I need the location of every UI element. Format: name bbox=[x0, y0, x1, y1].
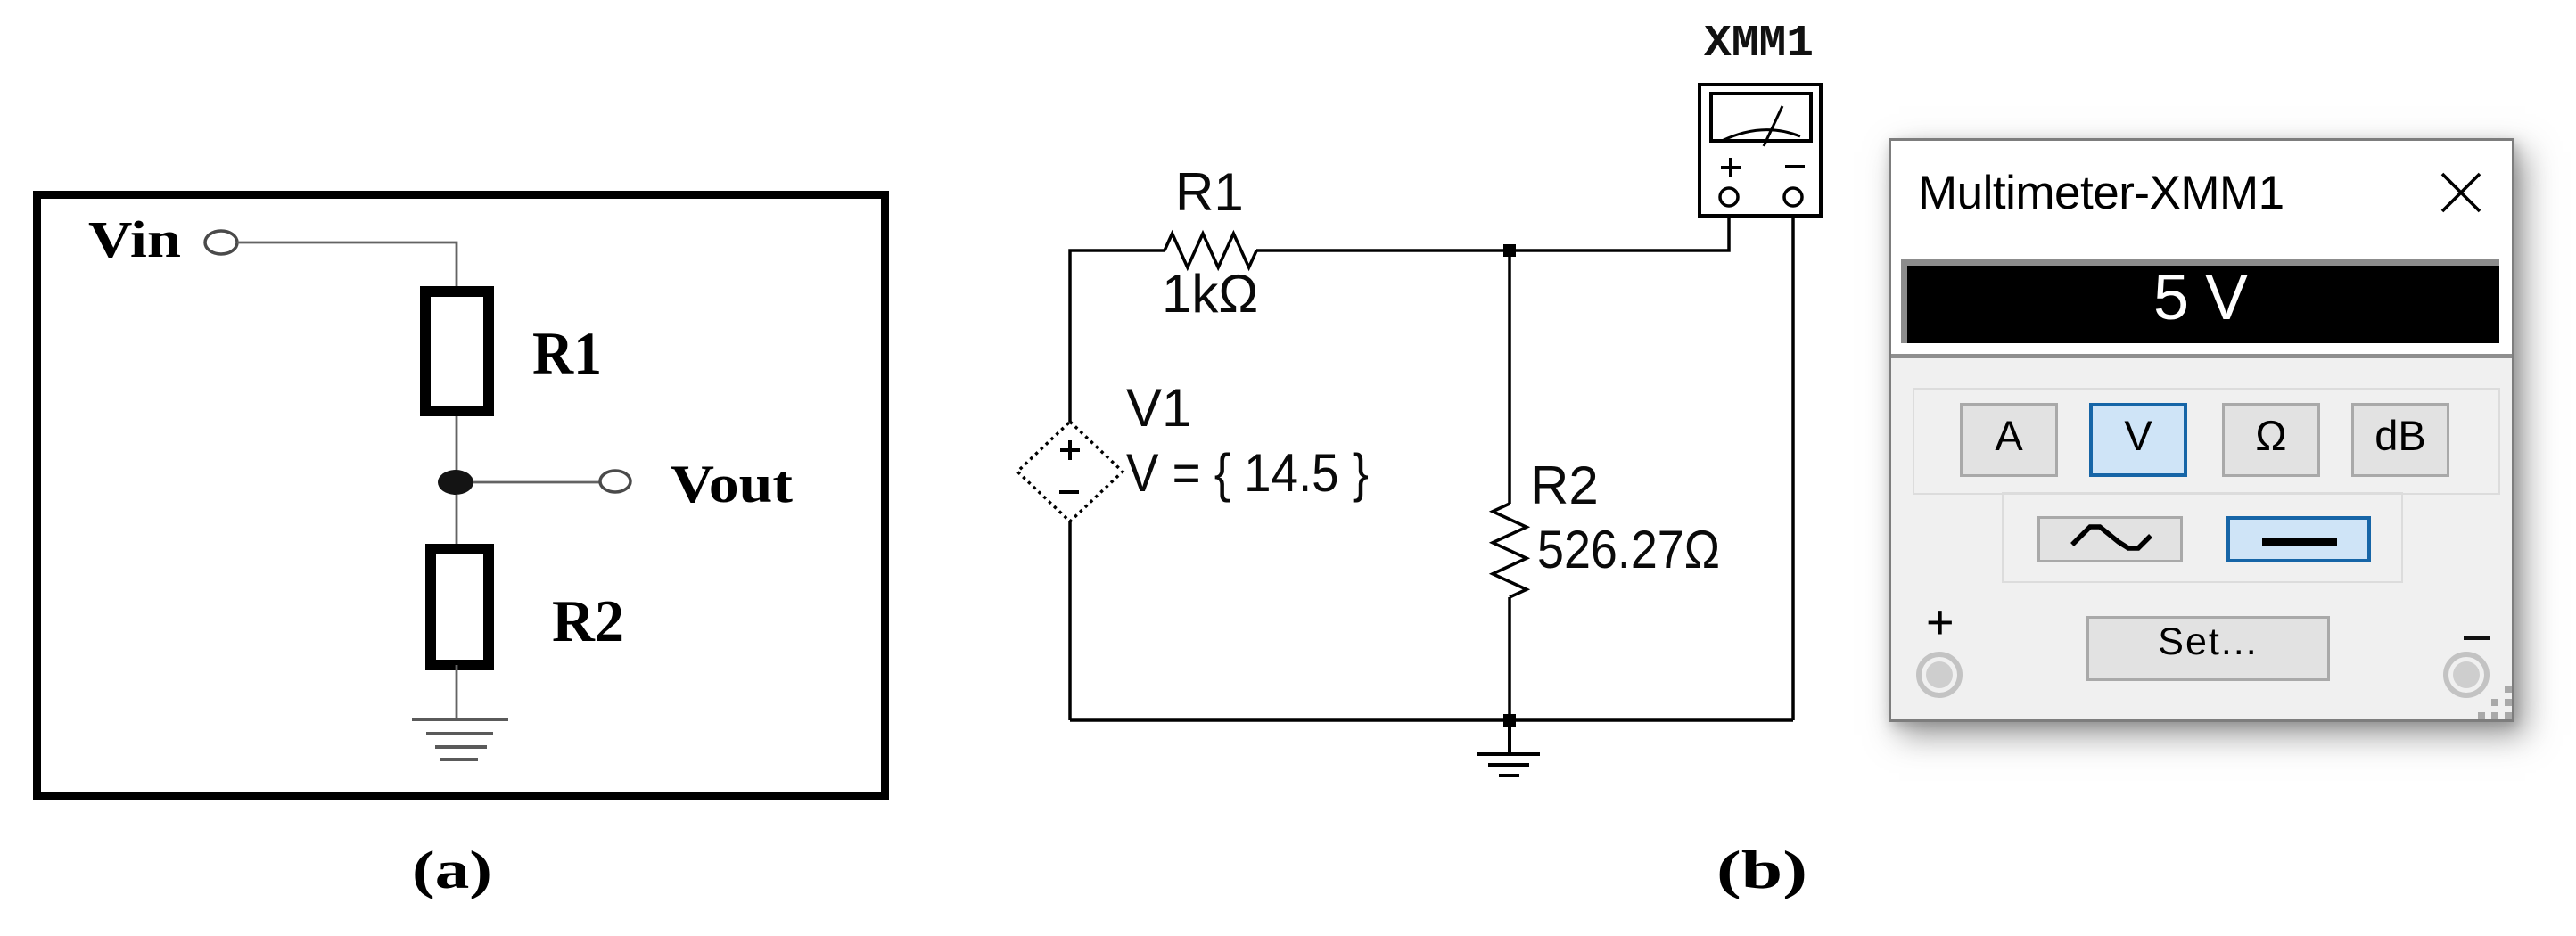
wire node to Vout bbox=[473, 481, 600, 484]
terminal Vout bbox=[600, 471, 630, 492]
svg-text:XMM1: XMM1 bbox=[1704, 19, 1814, 70]
svg-text:526.27Ω: 526.27Ω bbox=[1537, 520, 1720, 579]
svg-text:(a): (a) bbox=[412, 841, 492, 899]
svg-text:R2: R2 bbox=[1530, 456, 1599, 515]
junction node top bbox=[1503, 244, 1516, 257]
button A bbox=[1960, 403, 2058, 477]
XMM1 plus terminal bbox=[1720, 188, 1738, 206]
signal group box bbox=[2002, 492, 2403, 583]
XMM1 icon meter needle bbox=[1764, 106, 1782, 146]
button Set bbox=[2086, 616, 2330, 681]
wire R2 bottom to ground junction (b) bbox=[1508, 597, 1511, 720]
wire node to R2 top bbox=[456, 495, 458, 549]
svg-text:R2: R2 bbox=[552, 588, 624, 654]
V1 minus sign bbox=[1059, 490, 1079, 494]
bottom rail wire bbox=[1070, 718, 1793, 722]
resistor R2 (a) bbox=[431, 549, 489, 665]
XMM1 icon minus sign bbox=[1785, 165, 1805, 168]
wire Vin to R1 top bbox=[237, 242, 457, 286]
terminal Vin bbox=[205, 231, 237, 254]
resize grip bbox=[2505, 686, 2512, 693]
svg-text:V1: V1 bbox=[1126, 378, 1191, 438]
resistor R2 zigzag (b) bbox=[1493, 504, 1527, 597]
close button X bbox=[2440, 172, 2481, 213]
figure (a) frame bbox=[37, 195, 885, 796]
svg-text:R1: R1 bbox=[532, 319, 602, 387]
wire V1 minus to bottom rail bbox=[1068, 521, 1072, 720]
XMM1 icon meter window bbox=[1711, 94, 1811, 141]
wire R1 right lead to XMM1 plus bbox=[1256, 207, 1729, 250]
button V selected bbox=[2089, 403, 2187, 477]
voltage source V1 diamond bbox=[1017, 422, 1123, 521]
plus terminal label bbox=[1926, 595, 1955, 650]
plus terminal jack bbox=[1916, 652, 1963, 698]
ground (b) bbox=[1477, 720, 1540, 776]
wire V1 plus to R1 left lead bbox=[1070, 250, 1165, 423]
mode group box bbox=[1913, 388, 2500, 495]
resistor R1 (a) bbox=[425, 291, 489, 411]
caption (b) bbox=[1673, 829, 1851, 927]
button AC bbox=[2037, 516, 2183, 562]
multimeter dialog Multimeter-XMM1 bbox=[1889, 138, 2514, 722]
caption (a) bbox=[363, 829, 541, 927]
V1 plus sign bbox=[1060, 440, 1080, 460]
XMM1 minus terminal bbox=[1784, 188, 1802, 206]
button Ω bbox=[2222, 403, 2320, 477]
wire XMM1 minus to bottom rail bbox=[1791, 207, 1795, 720]
resistor R1 zigzag (b) bbox=[1165, 234, 1256, 267]
ground (a) bbox=[412, 719, 508, 759]
minus terminal label bbox=[2464, 636, 2490, 640]
multimeter XMM1 icon body bbox=[1700, 85, 1821, 216]
junction node bottom bbox=[1503, 714, 1516, 727]
svg-text:Vout: Vout bbox=[671, 455, 793, 513]
svg-text:R1: R1 bbox=[1175, 162, 1244, 222]
button DC selected bbox=[2226, 516, 2371, 562]
readout display bbox=[1891, 248, 2512, 358]
wire R2 bottom to ground bbox=[456, 665, 458, 718]
node junction dot bbox=[438, 470, 473, 495]
XMM1 icon plus sign bbox=[1721, 158, 1741, 177]
svg-text:Vin: Vin bbox=[88, 210, 181, 268]
button dB bbox=[2351, 403, 2449, 477]
minus terminal jack bbox=[2443, 652, 2490, 698]
XMM1 icon meter scale arc bbox=[1722, 130, 1800, 141]
svg-text:1kΩ: 1kΩ bbox=[1162, 264, 1258, 324]
wire junction to R2 top (b) bbox=[1508, 250, 1511, 504]
svg-text:V = { 14.5 }: V = { 14.5 } bbox=[1126, 443, 1369, 503]
wire R1 bottom to node bbox=[456, 416, 458, 471]
svg-text:(b): (b) bbox=[1716, 841, 1807, 899]
